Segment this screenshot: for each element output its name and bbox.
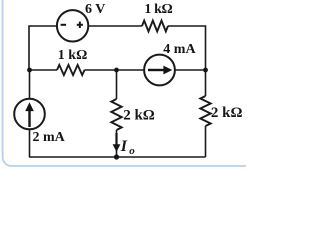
svg-text:I: I [120,138,128,155]
current source I1 4 mA circle [144,55,175,86]
figure background [0,0,246,170]
voltage source V1 circle [57,10,88,41]
node dot bottom [114,154,119,159]
node dot middle junction [114,68,119,73]
resistor R 1 kOhm (middle row) [57,65,85,75]
node dot left [27,68,32,73]
wire right rail lower [205,126,207,157]
wire second row to current source [85,69,145,71]
wire middle rail upper [116,70,118,99]
wire top from source to R1 [88,25,142,27]
resistor 2 kOhm (middle) [111,99,121,130]
node dot right [203,68,208,73]
arrow of 4 mA source [148,66,172,75]
arrow of 2 mA source [25,102,34,127]
current source I2 2 mA circle [14,99,45,130]
svg-text:1 kΩ: 1 kΩ [58,48,88,63]
wire second row left [29,69,57,71]
wire second row right of source [175,69,206,71]
wire bottom [29,156,206,158]
svg-text:4 mA: 4 mA [163,42,196,57]
svg-text:2 mA: 2 mA [33,130,66,145]
svg-text:1 kΩ: 1 kΩ [144,2,172,17]
voltage source plus sign [77,22,83,28]
wire left rail lower [29,129,31,157]
wire top-right corner [168,26,206,96]
wire middle rail lower [116,130,118,157]
wire left rail upper [29,70,31,99]
resistor 2 kOhm (right) [200,96,210,126]
svg-text:2 kΩ: 2 kΩ [211,105,243,121]
resistor R 1 kOhm (top) [142,21,168,32]
svg-text:2 kΩ: 2 kΩ [123,107,155,123]
svg-text:o: o [129,145,135,157]
wire top-left segment [29,26,57,70]
voltage source minus sign [61,24,67,26]
arrow Io on middle rail [113,133,121,152]
svg-text:6 V: 6 V [85,2,105,17]
